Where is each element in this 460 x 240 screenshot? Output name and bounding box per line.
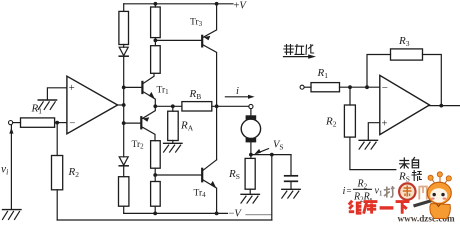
wire output column down to Tr4 <box>216 106 218 160</box>
wire -V rail faint extension <box>246 214 272 216</box>
diode D2 (lower, pointing down) <box>119 157 128 166</box>
ground (RA) <box>164 143 182 152</box>
svg-text:RB: RB <box>189 88 202 101</box>
transistor Tr1 (NPN) <box>124 73 156 106</box>
ground (RS) <box>241 194 259 203</box>
svg-text:VS: VS <box>273 140 284 152</box>
node input terminal circle (left circuit) <box>9 121 13 125</box>
wire col2 resistor to resistor <box>154 38 156 46</box>
resistor R1 (right circuit) <box>311 83 340 92</box>
svg-text:+: + <box>382 118 388 129</box>
wire terminal to motor <box>250 109 252 116</box>
wire VS node to capacitor <box>251 154 291 156</box>
resistor RB (horizontal) <box>182 102 212 111</box>
node RA tap <box>171 104 175 108</box>
ground (capacitor) <box>282 189 300 198</box>
wire input source vertical with arrow <box>9 125 13 209</box>
svg-text:Tr2: Tr2 <box>132 140 145 151</box>
node Tr1 base tap <box>122 86 126 90</box>
svg-text:R1: R1 <box>31 103 43 116</box>
svg-text:R3: R3 <box>398 35 410 48</box>
transistor Tr4 (NPN) <box>155 160 217 214</box>
node Tr4 base tap <box>153 173 157 177</box>
svg-text:+: + <box>69 83 75 94</box>
wire R1 to op-amp 2 <box>340 86 380 88</box>
svg-text:Tr3: Tr3 <box>190 18 203 29</box>
node motor terminal circle <box>249 104 253 108</box>
svg-text:+V: +V <box>234 1 248 12</box>
transistor Tr2 (PNP) <box>124 106 156 140</box>
ground (op-amp U2 + input) <box>359 140 377 149</box>
svg-text:v1: v1 <box>375 186 383 198</box>
wire input to R1 right <box>304 86 311 88</box>
wire between lower resistors <box>154 168 156 181</box>
wire emitter junction to RB <box>155 105 182 107</box>
resistor bias upper (no label) <box>119 11 129 44</box>
wire feedback up right <box>367 55 391 88</box>
svg-text:vi: vi <box>1 164 8 177</box>
wire input to R1 <box>13 122 21 124</box>
node top rail Tr3 emitter <box>215 2 219 6</box>
node emitter junction <box>153 104 157 108</box>
svg-text:R2: R2 <box>325 116 337 129</box>
wire RA to ground <box>172 141 174 143</box>
wire feedback bottom rail <box>57 219 272 221</box>
wire to Tr3 base <box>155 39 201 41</box>
wire RS to ground <box>249 189 251 194</box>
svg-text:RA: RA <box>180 120 194 133</box>
svg-text:i: i <box>343 186 346 197</box>
resistor RS <box>245 158 255 189</box>
wire RA stub <box>172 106 174 111</box>
label i with current arrow <box>225 95 254 99</box>
wire R2 stub right <box>349 87 351 105</box>
node Tr2 base tap <box>122 121 126 125</box>
wire R2 bottom to feedback rail <box>56 190 58 220</box>
svg-text:=: = <box>347 186 352 196</box>
node RB output junction <box>215 104 219 108</box>
motor M (DC servomotor) <box>241 115 260 142</box>
wire resistor to diode <box>123 45 125 48</box>
svg-text:R2: R2 <box>357 179 368 191</box>
logo mascot (dzsc) <box>413 172 451 219</box>
node feedback tap right <box>365 85 369 89</box>
resistor R2 (left circuit, vertical) <box>52 156 63 190</box>
svg-text:−: − <box>382 82 388 94</box>
wire RB right to motor terminal <box>212 105 249 107</box>
node Tr3 base tap <box>154 39 158 43</box>
svg-text:R2: R2 <box>68 166 80 179</box>
node feedback tap <box>270 153 274 157</box>
wire col2 top stub <box>154 4 156 7</box>
node -V rail col2 <box>153 212 157 216</box>
op-amp U2 triangle <box>380 75 430 134</box>
node op-amp output junction <box>122 103 126 107</box>
capacitor C1 <box>285 155 298 189</box>
wire diode D2 to lower resistor <box>123 166 125 177</box>
wire op-amp output to bias rail <box>118 104 124 106</box>
diode D1 (upper, pointing down) <box>119 47 128 56</box>
watermark weiku-yixia red text <box>349 201 410 214</box>
label from (Chinese lai-zi) <box>400 158 419 169</box>
op-amp U1 triangle <box>67 76 118 134</box>
wire bias column top stub <box>123 4 125 12</box>
node R2 tap right <box>348 85 352 89</box>
svg-text:Tr1: Tr1 <box>157 86 170 97</box>
resistor col2 second (no label) <box>151 46 161 74</box>
wire op-amp + input to ground <box>47 88 67 100</box>
wire R1 to op-amp inverting input <box>55 122 67 124</box>
wire op-amp2 output <box>430 105 460 107</box>
node -V rail Tr4 emitter <box>215 212 219 216</box>
wire lower resistor to -V rail <box>123 206 125 213</box>
wire op-amp2 + input to ground <box>368 123 380 140</box>
wire feedback vertical <box>271 155 273 220</box>
wire -V bottom rail <box>124 212 228 214</box>
node junction R1/R2 <box>55 121 59 125</box>
svg-text:R1: R1 <box>317 67 329 80</box>
svg-text:RS: RS <box>398 171 410 184</box>
node input terminal (right circuit) <box>300 85 304 89</box>
resistor col2 third (no label) <box>151 141 161 169</box>
node output feedback junction <box>439 104 443 108</box>
node top rail col2 <box>154 2 158 6</box>
resistor R3 <box>391 49 423 60</box>
resistor R2 (right circuit) <box>344 105 355 137</box>
transistor Tr3 (PNP) <box>202 4 216 107</box>
resistor R1 (left circuit, horizontal) <box>21 118 55 127</box>
resistor col2 fourth (no label) <box>151 182 161 207</box>
wire junction down to R2 <box>56 123 58 156</box>
wire bias rail middle (diode to lower diode) <box>123 56 125 157</box>
wire R3 to output <box>423 55 442 106</box>
wire +V top rail <box>124 3 233 5</box>
watermark zhao-xin-pian gray/red <box>384 183 427 199</box>
svg-text:Tr4: Tr4 <box>194 189 207 200</box>
svg-text:i: i <box>236 86 239 97</box>
svg-text:−: − <box>69 118 75 130</box>
wire R2 bottom to RS terminal <box>350 137 396 170</box>
resistor bias lower (no label) <box>119 177 129 207</box>
resistor RA <box>168 111 179 140</box>
label formula i = R2/(R2 Rs) v1 <box>343 179 383 204</box>
node VS junction <box>249 153 253 157</box>
wire motor to VS node <box>250 142 252 158</box>
resistor col2 upper (no label) <box>151 7 161 38</box>
svg-text:RS: RS <box>228 168 240 181</box>
svg-text:−V: −V <box>229 209 243 220</box>
label stabilization (Chinese) with arrow <box>284 45 314 55</box>
ground (bottom-left, input source) <box>3 210 22 220</box>
ground (op-amp U1 + input) <box>38 100 56 109</box>
wire col2 bottom stub <box>154 206 156 213</box>
label VS with arrow <box>254 149 268 155</box>
